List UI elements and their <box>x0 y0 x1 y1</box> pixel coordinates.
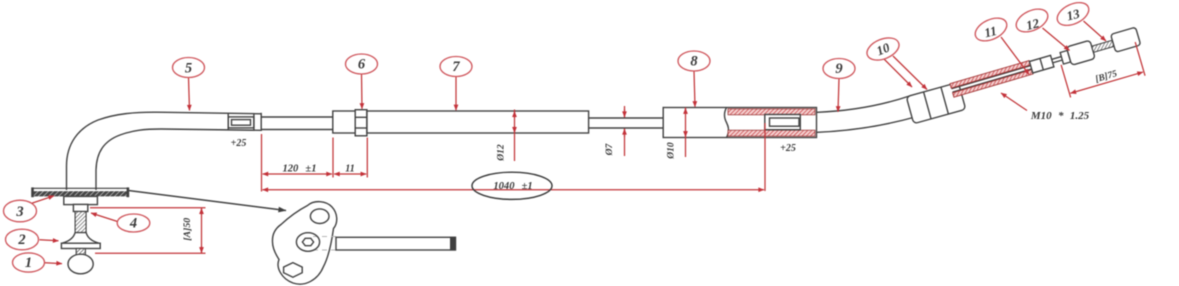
svg-text:5: 5 <box>185 60 192 76</box>
svg-text:+25: +25 <box>780 143 796 154</box>
svg-text:9: 9 <box>835 61 842 77</box>
svg-text:6: 6 <box>358 57 366 73</box>
svg-text:Ø10: Ø10 <box>667 142 677 160</box>
svg-text:+25: +25 <box>231 138 247 149</box>
svg-text:Ø12: Ø12 <box>497 144 507 162</box>
svg-text:1: 1 <box>25 255 32 271</box>
svg-text:4: 4 <box>129 216 137 232</box>
svg-text:11: 11 <box>345 164 354 175</box>
svg-text:8: 8 <box>690 54 698 70</box>
svg-text:2: 2 <box>17 232 25 248</box>
svg-text:120 ±1: 120 ±1 <box>282 164 316 175</box>
svg-text:[A]50: [A]50 <box>182 218 193 241</box>
svg-text:Ø7: Ø7 <box>605 142 615 156</box>
svg-text:3: 3 <box>15 204 23 220</box>
svg-text:7: 7 <box>452 59 460 75</box>
svg-text:M10 * 1.25: M10 * 1.25 <box>1030 110 1090 122</box>
svg-text:1040 ±1: 1040 ±1 <box>493 181 532 192</box>
